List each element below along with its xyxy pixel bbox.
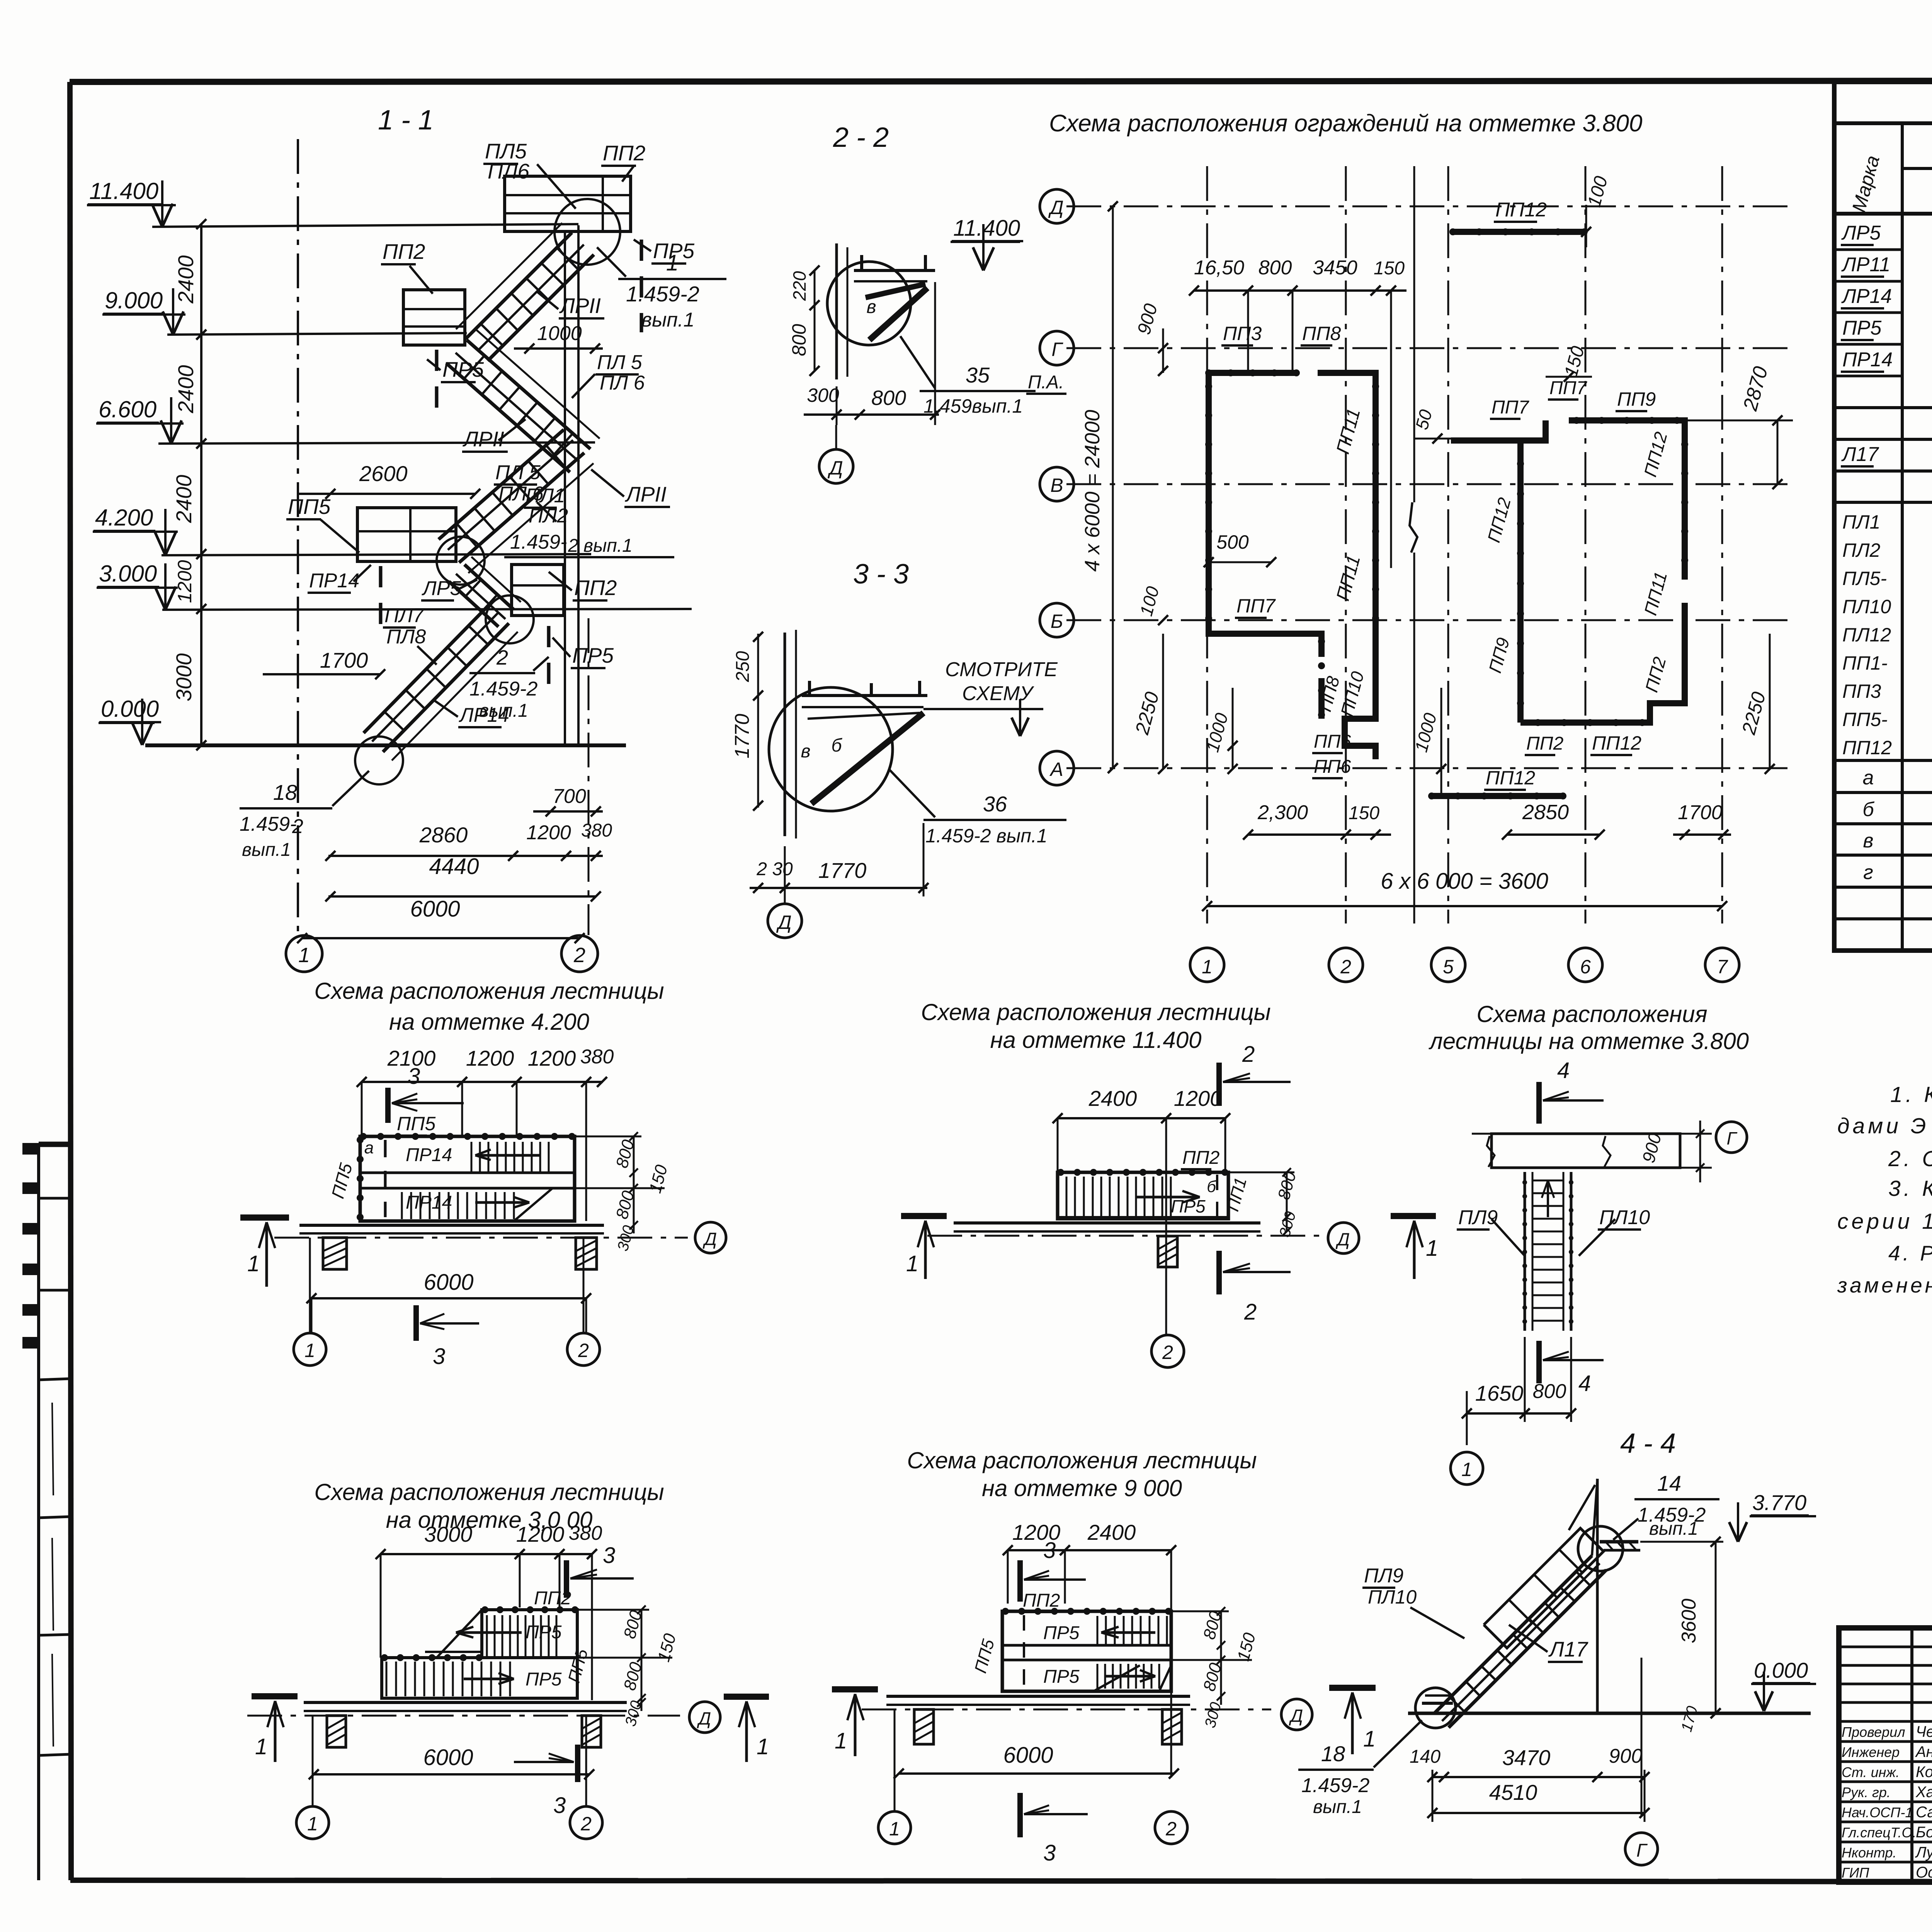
svg-text:ПР5: ПР5 xyxy=(526,1669,562,1690)
flight LR11 from 11.400 down to 9.000 xyxy=(466,233,572,339)
svg-text:ПП2: ПП2 xyxy=(603,141,645,165)
svg-text:900: 900 xyxy=(1609,1745,1643,1767)
svg-text:1: 1 xyxy=(1461,1459,1472,1480)
3-3 vertical member xyxy=(784,633,786,836)
3.800 section mark 1 left xyxy=(1391,1213,1436,1219)
svg-text:1: 1 xyxy=(307,1813,318,1835)
svg-text:ПП12: ПП12 xyxy=(1486,767,1535,789)
11.400 axis circle 2 xyxy=(1151,1335,1184,1367)
svg-text:Рук. гр.: Рук. гр. xyxy=(1842,1784,1891,1800)
svg-text:2: 2 xyxy=(1165,1818,1177,1840)
svg-text:6000: 6000 xyxy=(410,896,460,922)
svg-text:Л17: Л17 xyxy=(1841,443,1879,466)
svg-text:1200: 1200 xyxy=(528,1046,576,1070)
flight LR14 from 3.000 to ground xyxy=(383,623,509,752)
title block outer xyxy=(1839,1628,1932,1882)
svg-text:1: 1 xyxy=(1202,956,1213,978)
svg-text:ПП9: ПП9 xyxy=(1617,388,1656,410)
svg-text:2400: 2400 xyxy=(173,255,198,304)
3-3 leader arrow to schema xyxy=(923,708,1043,710)
svg-text:6000: 6000 xyxy=(1003,1743,1053,1768)
svg-text:Чернявская: Чернявская xyxy=(1916,1723,1932,1740)
svg-text:ЛРII: ЛРII xyxy=(463,427,504,451)
svg-text:1650: 1650 xyxy=(1475,1381,1524,1405)
platform PP5 at 4.200 xyxy=(357,508,456,561)
svg-text:ПР14: ПР14 xyxy=(406,1145,452,1165)
4-4 top bracket xyxy=(1600,1540,1638,1544)
svg-text:ПР14: ПР14 xyxy=(1842,349,1893,371)
11.400 beam xyxy=(954,1221,1260,1225)
svg-text:500: 500 xyxy=(1216,531,1249,553)
svg-text:ПЛ9: ПЛ9 xyxy=(1458,1206,1498,1229)
svg-text:4 х 6000 = 24000: 4 х 6000 = 24000 xyxy=(1081,410,1104,572)
svg-text:1: 1 xyxy=(1363,1726,1376,1752)
svg-text:а: а xyxy=(1863,767,1874,789)
svg-text:б: б xyxy=(832,735,843,756)
svg-text:1200: 1200 xyxy=(516,1522,565,1546)
svg-text:4440: 4440 xyxy=(429,854,479,879)
4.200 diagonal cut xyxy=(514,1188,553,1221)
svg-text:ПП2: ПП2 xyxy=(383,240,425,264)
svg-text:ПП6: ПП6 xyxy=(1314,757,1351,777)
svg-text:7: 7 xyxy=(1717,956,1728,978)
svg-text:г: г xyxy=(1863,861,1873,884)
svg-text:2: 2 xyxy=(1340,956,1351,978)
svg-text:ПП2: ПП2 xyxy=(1182,1148,1219,1168)
4.200 axis D line and circle xyxy=(274,1237,688,1239)
svg-text:Д: Д xyxy=(1289,1706,1303,1726)
3.800 vertical ladder xyxy=(1524,1172,1526,1331)
svg-text:3: 3 xyxy=(433,1344,445,1369)
detail circle at 11.400 landing xyxy=(554,199,620,265)
svg-text:дами Э 42 по 946·7- 75.: дами Э 42 по 946·7- 75. xyxy=(1837,1114,1932,1138)
svg-text:3: 3 xyxy=(553,1793,566,1818)
svg-text:Осташевский: Осташевский xyxy=(1916,1864,1932,1881)
9.000 axis circles 1 2 xyxy=(894,1709,896,1811)
svg-text:Схема расположения ограждений: Схема расположения ограждений на отметке… xyxy=(1049,110,1643,137)
svg-text:б: б xyxy=(1207,1177,1216,1196)
svg-text:2: 2 xyxy=(1162,1342,1173,1363)
platform PP2 at 3.000 xyxy=(512,565,564,616)
svg-text:ПЛ5-: ПЛ5- xyxy=(1842,568,1887,589)
3.000 axis circles 1 2 xyxy=(312,1716,314,1806)
svg-text:1: 1 xyxy=(757,1734,769,1759)
svg-text:3.770: 3.770 xyxy=(1752,1490,1806,1515)
svg-text:1.459-2: 1.459-2 xyxy=(469,678,537,700)
3.000 lower arrow xyxy=(464,1678,514,1680)
table row lines xyxy=(1834,406,1932,409)
svg-text:ПП2: ПП2 xyxy=(534,1588,571,1609)
4-4 bottom bracket and circle xyxy=(1422,1702,1453,1705)
svg-text:14: 14 xyxy=(1657,1471,1681,1495)
2-2 vertical post xyxy=(835,243,838,379)
svg-text:ЛР14: ЛР14 xyxy=(459,704,509,726)
svg-text:6000: 6000 xyxy=(423,1270,473,1295)
svg-text:СХЕМУ: СХЕМУ xyxy=(962,682,1034,705)
flight LR11 from 9.000 down to 6.600 xyxy=(467,340,590,449)
svg-text:1. Конструкции сварные. Свар: 1. Конструкции сварные. Сварку производи… xyxy=(1890,1082,1932,1107)
svg-text:Г: Г xyxy=(1636,1840,1648,1861)
9.000 section mark 3 bottom xyxy=(1017,1793,1023,1837)
svg-text:ПР5: ПР5 xyxy=(1043,1623,1080,1643)
svg-text:4: 4 xyxy=(1578,1371,1591,1396)
left railing unit outline (thick with dots) xyxy=(1209,370,1296,376)
svg-text:1000: 1000 xyxy=(537,322,582,345)
svg-text:Луценко: Луценко xyxy=(1915,1844,1932,1861)
svg-text:18: 18 xyxy=(1321,1742,1345,1766)
dashed handrail below 3.000 xyxy=(547,626,551,687)
fold mark bars on left edge xyxy=(22,1143,40,1155)
svg-text:250: 250 xyxy=(733,651,753,682)
svg-text:140: 140 xyxy=(1410,1747,1440,1767)
3.000 stepped platform upper xyxy=(482,1610,577,1658)
2-2 detail circle xyxy=(827,262,911,345)
svg-text:ПП5-: ПП5- xyxy=(1842,709,1888,730)
3.000 axis D and circle xyxy=(247,1715,680,1717)
9.000 axis D and circle xyxy=(862,1709,1271,1711)
svg-text:2400: 2400 xyxy=(1088,1086,1137,1111)
title block signature column verticals xyxy=(1910,1628,1913,1882)
detail circle at 4.200 xyxy=(437,537,485,585)
svg-text:150: 150 xyxy=(1374,258,1405,279)
svg-text:2860: 2860 xyxy=(419,823,468,847)
svg-text:1200: 1200 xyxy=(1174,1086,1222,1111)
4.200 hatched column right xyxy=(576,1238,597,1269)
3.000 platform lower xyxy=(382,1658,577,1698)
plan railing PP12 top at axis D xyxy=(1451,229,1586,235)
svg-text:ЛР5: ЛР5 xyxy=(422,577,461,600)
svg-text:Д: Д xyxy=(776,912,791,933)
3.800 section mark 4 bottom xyxy=(1536,1341,1542,1383)
svg-text:0.000: 0.000 xyxy=(1754,1658,1808,1682)
svg-text:вып.1: вып.1 xyxy=(1649,1519,1698,1539)
svg-text:Проверил: Проверил xyxy=(1842,1724,1905,1740)
svg-text:2400: 2400 xyxy=(1087,1520,1136,1544)
svg-text:СМОТРИТЕ: СМОТРИТЕ xyxy=(945,658,1058,681)
svg-text:заменен на настил типа „ Ба: заменен на настил типа „ Батайск” по ТУ … xyxy=(1837,1273,1932,1297)
svg-text:ПП8: ПП8 xyxy=(1302,323,1341,344)
3.800 up arrow in ladder xyxy=(1547,1180,1549,1217)
svg-text:2: 2 xyxy=(1244,1299,1257,1325)
title block signature rows top empty xyxy=(1839,1646,1932,1648)
svg-text:2850: 2850 xyxy=(1522,801,1569,824)
9.000 right rotated dims xyxy=(1220,1611,1222,1705)
4.200 section mark 3 bottom xyxy=(413,1305,419,1341)
plan axis circles bottom xyxy=(1190,948,1224,982)
svg-text:на отметке 4.200: на отметке 4.200 xyxy=(389,1009,589,1035)
svg-text:ПЛ12: ПЛ12 xyxy=(1842,624,1891,646)
svg-text:ПП3: ПП3 xyxy=(1842,680,1881,702)
svg-text:ПР5: ПР5 xyxy=(1171,1196,1206,1216)
svg-text:4.200: 4.200 xyxy=(95,505,153,531)
svg-text:ПЛ10: ПЛ10 xyxy=(1842,596,1891,617)
svg-text:Схема расположения: Схема расположения xyxy=(1476,1001,1707,1027)
svg-text:3000: 3000 xyxy=(172,653,196,702)
plan horizontal axis lines xyxy=(1066,206,1793,207)
svg-text:ПЛ2: ПЛ2 xyxy=(529,505,568,527)
svg-text:на отметке 9 000: на отметке 9 000 xyxy=(982,1475,1182,1501)
svg-text:1700: 1700 xyxy=(320,648,368,672)
svg-text:1200: 1200 xyxy=(174,560,196,603)
svg-text:ЛР14: ЛР14 xyxy=(1841,285,1892,308)
3-3 detail circle xyxy=(769,687,893,811)
3.000 upper arrow xyxy=(456,1631,522,1634)
4-4 ladder cage panels xyxy=(1484,1528,1604,1648)
svg-text:1770: 1770 xyxy=(731,714,753,759)
svg-text:ПЛ 5: ПЛ 5 xyxy=(597,351,643,374)
3.800 axis circle 1 xyxy=(1451,1452,1483,1485)
11.400 arrow right xyxy=(1136,1196,1200,1199)
svg-text:ПП2: ПП2 xyxy=(574,576,617,600)
svg-text:Д: Д xyxy=(827,457,843,479)
svg-text:ПЛ8: ПЛ8 xyxy=(386,626,426,648)
svg-text:4 - 4: 4 - 4 xyxy=(1620,1428,1676,1459)
entry detail circle at 0.000 xyxy=(355,736,403,784)
svg-text:4: 4 xyxy=(1557,1058,1570,1083)
svg-text:1.459-: 1.459- xyxy=(240,813,296,835)
svg-text:1200: 1200 xyxy=(466,1046,514,1070)
11.400 section mark 2 top xyxy=(1216,1063,1222,1106)
svg-text:Г: Г xyxy=(1726,1128,1737,1148)
svg-text:Д: Д xyxy=(1048,197,1063,218)
svg-text:1: 1 xyxy=(889,1818,900,1840)
svg-text:ПП6: ПП6 xyxy=(1314,731,1351,752)
table column lines xyxy=(1901,123,1904,951)
4.200 axis circle 2 bottom xyxy=(567,1333,600,1366)
svg-text:2: 2 xyxy=(1242,1042,1255,1067)
svg-text:16,50: 16,50 xyxy=(1194,257,1244,279)
svg-text:3.000: 3.000 xyxy=(99,561,157,587)
svg-text:ПЛ6: ПЛ6 xyxy=(488,159,530,183)
plan axis circles left xyxy=(1040,189,1074,223)
left folding strip xyxy=(37,1143,40,1880)
4.200 right rotated dims 800 800 150 300 xyxy=(633,1136,635,1233)
svg-text:800: 800 xyxy=(788,324,810,356)
plan break line squiggle xyxy=(1410,502,1417,553)
svg-text:ЛР5: ЛР5 xyxy=(1841,222,1881,244)
3.800 section mark 4 top xyxy=(1536,1082,1542,1124)
svg-text:2: 2 xyxy=(292,815,303,838)
svg-text:1.459-: 1.459- xyxy=(510,531,567,553)
svg-text:11.400: 11.400 xyxy=(89,178,158,204)
svg-text:3000: 3000 xyxy=(424,1522,473,1546)
svg-text:ПЛ9: ПЛ9 xyxy=(1364,1565,1403,1587)
svg-text:1: 1 xyxy=(906,1251,918,1276)
svg-text:1770: 1770 xyxy=(818,858,867,883)
svg-text:Б: Б xyxy=(1051,611,1063,632)
svg-text:Нконтр.: Нконтр. xyxy=(1842,1845,1896,1861)
9.000 hatched columns xyxy=(914,1709,934,1744)
3.000 beam xyxy=(304,1701,627,1704)
svg-text:1: 1 xyxy=(666,250,679,276)
svg-text:П.А.: П.А. xyxy=(1028,372,1064,393)
svg-text:6000: 6000 xyxy=(423,1745,473,1770)
4-4 top detail circle xyxy=(1578,1526,1623,1571)
svg-text:1 - 1: 1 - 1 xyxy=(378,105,434,136)
svg-text:Схема расположения лестницы: Схема расположения лестницы xyxy=(921,999,1270,1025)
svg-text:6 х 6 000 = 3600: 6 х 6 000 = 3600 xyxy=(1381,869,1548,894)
3.000 section mark 1 right xyxy=(724,1694,769,1700)
11.400 hatched column xyxy=(1158,1236,1177,1267)
svg-text:ПЛ7: ПЛ7 xyxy=(384,604,425,627)
svg-text:ЛРII: ЛРII xyxy=(625,482,667,506)
svg-text:ПП7: ПП7 xyxy=(1492,397,1530,418)
svg-text:700: 700 xyxy=(553,785,586,808)
svg-text:2: 2 xyxy=(580,1813,592,1835)
svg-text:вып.1: вып.1 xyxy=(641,309,694,331)
flight from 6.600 down to 4.200 xyxy=(459,453,584,563)
3.000 section mark 3 top xyxy=(564,1560,569,1598)
svg-text:800: 800 xyxy=(1533,1380,1566,1403)
4-4 axis circle G xyxy=(1625,1833,1658,1865)
table header rows xyxy=(1902,123,1932,168)
svg-text:вып.1: вып.1 xyxy=(1313,1797,1362,1817)
svg-text:2 вып.1: 2 вып.1 xyxy=(568,536,633,556)
svg-text:36: 36 xyxy=(983,792,1007,816)
3.000 section mark 3 bottom xyxy=(575,1745,580,1782)
3-3 axis circle D xyxy=(768,904,802,938)
svg-text:Д: Д xyxy=(1335,1229,1350,1249)
svg-text:1: 1 xyxy=(298,944,310,967)
svg-text:300: 300 xyxy=(807,384,839,406)
svg-text:Боярченко: Боярченко xyxy=(1916,1824,1932,1841)
svg-text:380: 380 xyxy=(580,1046,614,1068)
2-2 axis circle D xyxy=(819,449,853,483)
svg-text:Ханин: Ханин xyxy=(1915,1784,1932,1801)
svg-text:Инженер: Инженер xyxy=(1842,1744,1900,1760)
svg-text:ПП5: ПП5 xyxy=(397,1113,435,1134)
svg-text:2400: 2400 xyxy=(173,365,198,414)
9.000 diagonal cut lower right xyxy=(1159,1665,1171,1691)
svg-text:800: 800 xyxy=(871,386,906,410)
4.200 dashed line xyxy=(384,1140,387,1217)
svg-text:ПЛ1: ПЛ1 xyxy=(1842,511,1880,533)
3.000 right rotated dims xyxy=(641,1610,643,1711)
9.000 section mark 1 right xyxy=(1329,1685,1376,1691)
svg-text:2: 2 xyxy=(496,646,508,669)
svg-text:380: 380 xyxy=(581,820,612,841)
svg-text:2400: 2400 xyxy=(172,475,196,524)
svg-text:1.459-2: 1.459-2 xyxy=(1301,1774,1369,1797)
right railing unit outline xyxy=(1520,420,1546,723)
platform PP2 at 11.400 xyxy=(505,176,631,231)
svg-text:ПР14: ПР14 xyxy=(309,570,359,592)
svg-text:ПП12: ПП12 xyxy=(1592,732,1641,754)
svg-text:380: 380 xyxy=(569,1522,602,1544)
3.800 axis G line xyxy=(1472,1133,1685,1135)
svg-text:800: 800 xyxy=(1259,257,1292,279)
svg-text:А: А xyxy=(1049,759,1063,780)
svg-text:ПЛ 6: ПЛ 6 xyxy=(600,372,645,394)
svg-text:2 - 2: 2 - 2 xyxy=(833,122,889,153)
svg-text:серии 1.459- 2 вып. 1: серии 1.459- 2 вып. 1 xyxy=(1837,1209,1932,1234)
dashed handrail right of top platform xyxy=(640,240,643,332)
dashed handrail below 9.000 platform xyxy=(435,350,439,417)
svg-text:В: В xyxy=(1050,474,1063,496)
svg-text:ГИП: ГИП xyxy=(1842,1865,1869,1881)
svg-text:0.000: 0.000 xyxy=(101,696,159,722)
svg-text:на отметке 11.400: на отметке 11.400 xyxy=(990,1027,1202,1053)
svg-text:ПП5: ПП5 xyxy=(288,495,331,519)
svg-text:3: 3 xyxy=(1043,1840,1056,1866)
axis circle 1 xyxy=(286,935,322,972)
plan railing PP12 bottom xyxy=(1430,793,1565,799)
3-3 diagonal brace xyxy=(808,713,920,719)
svg-text:Схема расположения лестницы: Схема расположения лестницы xyxy=(314,978,664,1004)
svg-text:4. Решетчатый настил в площ: 4. Решетчатый настил в площадках и лестн… xyxy=(1888,1241,1932,1265)
svg-text:3: 3 xyxy=(408,1064,420,1089)
svg-text:2. Сварка ручная дуговая: 2. Сварка ручная дуговая hш. = 6мм. xyxy=(1888,1146,1932,1171)
4-4 axis G vertical line xyxy=(1641,1658,1643,1816)
svg-text:3600: 3600 xyxy=(1678,1599,1700,1643)
svg-text:9.000: 9.000 xyxy=(105,287,163,313)
svg-text:ПП12: ПП12 xyxy=(1842,737,1892,759)
svg-text:ПР5: ПР5 xyxy=(526,1622,562,1643)
svg-text:5: 5 xyxy=(1443,956,1454,978)
4.200 section mark 1 left xyxy=(240,1214,289,1221)
svg-text:ПП3: ПП3 xyxy=(1223,323,1262,344)
svg-text:3450: 3450 xyxy=(1313,257,1357,279)
axis circle 2 xyxy=(561,935,598,972)
svg-text:ПЛ 5: ПЛ 5 xyxy=(495,461,541,484)
2-2 bracket detail xyxy=(854,269,935,272)
column axis 1 dash-dot line xyxy=(297,139,299,935)
4-4 inclined ladder xyxy=(1434,1556,1592,1713)
svg-text:ПП2: ПП2 xyxy=(1526,733,1563,754)
svg-text:Схема расположения лестницы: Схема расположения лестницы xyxy=(907,1447,1257,1473)
svg-text:в: в xyxy=(866,297,876,317)
svg-text:б: б xyxy=(1862,798,1874,821)
svg-text:Л17: Л17 xyxy=(1548,1637,1588,1661)
svg-text:Коротенко: Коротенко xyxy=(1916,1764,1932,1781)
svg-text:ПП7: ПП7 xyxy=(1236,595,1276,617)
plan vertical axis lines xyxy=(1206,166,1208,923)
svg-text:Д: Д xyxy=(702,1229,717,1249)
svg-text:6: 6 xyxy=(1580,956,1591,978)
svg-text:ПП7: ПП7 xyxy=(1549,378,1588,398)
svg-text:ПП12: ПП12 xyxy=(1495,199,1547,221)
svg-text:ПР14: ПР14 xyxy=(406,1192,452,1213)
svg-text:150: 150 xyxy=(1349,803,1379,823)
svg-text:1700: 1700 xyxy=(1678,801,1723,824)
3.800 platform band xyxy=(1492,1132,1680,1133)
svg-text:в: в xyxy=(1863,830,1873,852)
svg-text:ПР5: ПР5 xyxy=(1043,1667,1080,1687)
11.400 platform plan xyxy=(1058,1172,1228,1219)
svg-text:ПР5: ПР5 xyxy=(1842,317,1882,339)
svg-text:2: 2 xyxy=(573,944,585,967)
svg-text:1.459-2 вып.1: 1.459-2 вып.1 xyxy=(925,825,1048,847)
svg-text:ПР5: ПР5 xyxy=(572,643,614,667)
4.200 hatched column left xyxy=(323,1238,347,1269)
4.200 beam xyxy=(299,1224,604,1227)
svg-text:ЛРII: ЛРII xyxy=(559,294,601,318)
svg-text:220: 220 xyxy=(789,271,810,301)
svg-text:ПП1-: ПП1- xyxy=(1842,652,1888,674)
svg-text:1: 1 xyxy=(304,1340,315,1361)
svg-text:6.600: 6.600 xyxy=(99,396,156,422)
4.200 axis circle 1 bottom xyxy=(309,1238,311,1333)
svg-text:Схема расположения лестницы: Схема расположения лестницы xyxy=(314,1479,664,1505)
svg-text:ПЛ1: ПЛ1 xyxy=(526,485,565,507)
svg-text:3: 3 xyxy=(1043,1538,1056,1563)
svg-text:11.400: 11.400 xyxy=(953,216,1020,241)
9.000 beam xyxy=(886,1695,1190,1698)
svg-text:3 - 3: 3 - 3 xyxy=(853,559,909,590)
svg-text:вып.1: вып.1 xyxy=(242,840,291,860)
svg-text:Ст. инж.: Ст. инж. xyxy=(1842,1764,1900,1780)
svg-text:Нач.ОСП-1: Нач.ОСП-1 xyxy=(1842,1804,1913,1820)
